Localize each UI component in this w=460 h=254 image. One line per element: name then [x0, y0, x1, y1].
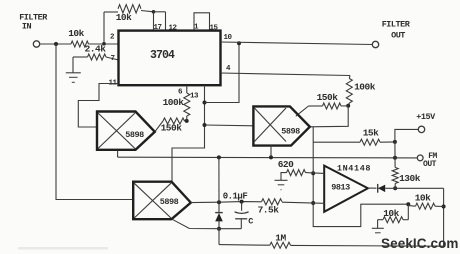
- svg-text:5898: 5898: [281, 127, 300, 137]
- svg-text:100k: 100k: [354, 82, 376, 93]
- svg-text:1M: 1M: [275, 233, 286, 244]
- pin 10 label: [223, 34, 232, 42]
- resistor 7.5k: [258, 199, 282, 216]
- wire modulator1 bottom stub: [117, 151, 119, 158]
- wire: [106, 57, 119, 60]
- wire input to modulator 3: [56, 44, 133, 200]
- resistor 10k R1: [68, 28, 88, 47]
- pin 15 label: [209, 25, 218, 33]
- svg-text:IN: IN: [22, 22, 32, 32]
- wire 1M bus: [219, 245, 444, 247]
- node +15V label: [416, 112, 436, 122]
- resistor 100k R4: [163, 85, 190, 121]
- resistor 10k R2 feedback: [116, 5, 141, 23]
- junction 10k pair: [442, 205, 446, 209]
- resistor 130k: [392, 167, 420, 184]
- wire: [219, 228, 241, 230]
- svg-text:C: C: [248, 217, 253, 227]
- wire pin17 stub: [153, 12, 155, 31]
- wire modulator2 bottom stub: [270, 146, 272, 158]
- svg-text:15k: 15k: [363, 128, 379, 139]
- wire: [394, 184, 396, 189]
- wire: [218, 157, 220, 202]
- resistor 2.4k: [85, 44, 107, 61]
- wire: [155, 121, 163, 132]
- wire: [72, 57, 74, 73]
- terminal FILTER IN: [33, 41, 39, 47]
- junction input node: [54, 42, 58, 46]
- wire modulator3 bottom: [172, 219, 219, 229]
- svg-text:150k: 150k: [161, 123, 183, 134]
- wire pins 1-15 loop: [194, 13, 210, 31]
- pin 6 label: [178, 89, 183, 97]
- svg-text:OUT: OUT: [391, 31, 405, 41]
- svg-text:3704: 3704: [150, 49, 175, 62]
- svg-text:7.5k: 7.5k: [258, 205, 280, 216]
- svg-text:620: 620: [278, 159, 294, 170]
- op-amp U4 9813: [324, 166, 368, 212]
- wire: [306, 172, 325, 175]
- terminal FM OUT: [417, 155, 423, 161]
- wire modulator3 output: [191, 202, 262, 203]
- terminal FILTER OUT: [372, 41, 378, 47]
- junction: [217, 200, 221, 204]
- wire: [310, 106, 348, 127]
- wire: [395, 187, 443, 189]
- junction: [393, 156, 397, 160]
- junction pin2/feedback: [102, 42, 106, 46]
- wire pin13 bus: [172, 85, 205, 181]
- junction 150k/100k: [185, 119, 189, 123]
- junction pin13 lower: [203, 123, 207, 127]
- pin 11 label: [108, 80, 117, 88]
- svg-text:15: 15: [209, 25, 218, 33]
- wire to pin10 line: [205, 43, 240, 102]
- node FILTER OUT label: [382, 20, 411, 41]
- resistor 100k R5: [346, 76, 375, 106]
- terminal +15V: [418, 126, 424, 132]
- wire: [394, 142, 396, 168]
- junction pin13 upper: [203, 101, 207, 105]
- wire: [73, 56, 88, 58]
- wire: [395, 129, 418, 142]
- junction 15k/+15V: [393, 140, 397, 144]
- diode D2: [215, 202, 223, 229]
- svg-text:10k: 10k: [415, 193, 431, 204]
- wire pin12 stub: [165, 12, 167, 31]
- wire pin4: [221, 73, 350, 76]
- wire FM bus: [118, 156, 418, 159]
- wire: [281, 173, 287, 180]
- junction node P: [406, 202, 410, 206]
- wire: [104, 11, 118, 13]
- ground G2: [275, 180, 288, 190]
- scan smudge: [18, 247, 108, 250]
- capacitor 0.1uF label: [223, 192, 248, 202]
- wire: [40, 43, 71, 45]
- node FM OUT label: [423, 152, 437, 169]
- pin 7 label: [110, 55, 114, 63]
- junction: [217, 155, 221, 159]
- wire: [282, 202, 324, 203]
- ground G3: [372, 228, 384, 238]
- svg-text:7: 7: [110, 55, 114, 63]
- pin 4 label: [226, 65, 231, 73]
- wire to modulator 2 input: [205, 124, 254, 127]
- resistor 10k upper: [408, 193, 443, 210]
- wire: [218, 229, 220, 245]
- multiplier U2 5898: [97, 112, 155, 150]
- pin 17 label: [153, 24, 161, 32]
- wire: [154, 11, 166, 13]
- svg-text:2.4k: 2.4k: [85, 44, 107, 55]
- resistor 150k R6: [296, 92, 348, 116]
- capacitor C 0.1uF: [235, 202, 254, 229]
- junction opamp noninv: [311, 201, 315, 205]
- wire block2 output bus: [313, 127, 408, 227]
- svg-text:OUT: OUT: [423, 160, 437, 169]
- resistor 1M: [270, 233, 291, 249]
- svg-text:130k: 130k: [399, 173, 421, 184]
- multiplier U3 5898: [253, 106, 309, 145]
- pin 13 label: [190, 93, 199, 101]
- wire: [103, 12, 105, 44]
- wire: [89, 43, 119, 45]
- svg-text:FILTER: FILTER: [382, 20, 411, 30]
- wire: [185, 120, 187, 122]
- wire: [141, 11, 154, 12]
- wire right bus: [443, 188, 445, 246]
- junction opamp inv: [311, 171, 315, 175]
- multiplier U5 5898: [133, 182, 191, 220]
- svg-text:17: 17: [153, 24, 161, 32]
- wire pin11: [78, 84, 118, 128]
- svg-text:5898: 5898: [125, 130, 144, 140]
- svg-text:+15V: +15V: [416, 112, 436, 122]
- svg-text:10k: 10k: [116, 12, 132, 23]
- wire pin10 to output: [221, 42, 373, 45]
- svg-text:10k: 10k: [383, 208, 399, 219]
- junction diode/130k: [393, 186, 397, 190]
- junction diode anode: [217, 227, 221, 231]
- junction pin17 top: [152, 10, 156, 14]
- svg-text:10k: 10k: [68, 28, 84, 39]
- watermark SeekIC.com: [381, 236, 459, 251]
- ground G1: [66, 73, 81, 83]
- svg-text:10: 10: [223, 34, 232, 42]
- node FILTER IN label: [19, 13, 48, 32]
- junction 100k/150k: [346, 104, 350, 108]
- svg-text:SeekIC.com: SeekIC.com: [381, 236, 459, 251]
- resistor 15k: [313, 128, 395, 146]
- svg-text:150k: 150k: [317, 92, 339, 103]
- svg-text:13: 13: [190, 93, 199, 101]
- pin 2 label: [110, 34, 115, 42]
- svg-text:1N4148: 1N4148: [337, 164, 371, 174]
- op-amp/IC U1 3704: [119, 31, 221, 86]
- resistor 10k lower: [378, 204, 409, 228]
- diode D1 1N4148: [337, 164, 395, 193]
- svg-text:9813: 9813: [331, 183, 350, 193]
- junction: [240, 200, 244, 204]
- svg-text:0.1µF: 0.1µF: [223, 192, 248, 202]
- resistor 150k R3: [161, 118, 185, 134]
- resistor 620: [278, 159, 306, 176]
- svg-text:12: 12: [168, 25, 177, 33]
- pin 1 label: [194, 24, 199, 32]
- svg-text:5898: 5898: [160, 197, 179, 207]
- pin 12 label: [168, 25, 177, 33]
- svg-text:100k: 100k: [163, 97, 185, 108]
- junction: [269, 155, 273, 159]
- junction on pin10 wire: [237, 41, 241, 45]
